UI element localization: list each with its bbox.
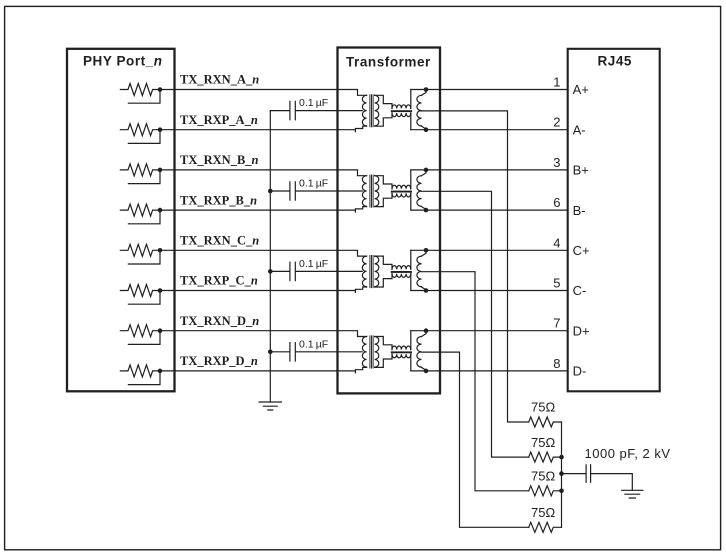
wire TX_RXP_B_n line [160,209,355,211]
node dot pin 3 [424,168,429,173]
wire TX_RXP_A_n line [160,129,355,131]
svg-text:8: 8 [553,356,560,371]
transformer T1 secondary bottom lead [375,113,392,126]
transformer T4 cable-side winding [417,337,422,368]
wire choke to pin line (top) [410,90,412,109]
node junction dot R1/line [158,87,163,92]
wire TX_RXN_B_n line [160,170,367,176]
node dot pin 8 [424,369,429,374]
resistor R5 75 ohm [529,417,562,427]
transformer T1 cable-side bottom lead [422,126,427,130]
svg-text:0.1 µF: 0.1 µF [299,258,328,270]
transformer T3 cable-side winding [417,256,422,287]
resistor R8 75 ohm [529,522,562,532]
transformer T2 secondary winding [375,176,379,207]
choke L2 top winding [392,185,411,189]
resistor R3 (PHY internal termination) [120,164,160,176]
choke L2 bottom winding [392,193,411,197]
node dot pin 7 [424,328,429,333]
transformer T1 cable-side top lead [422,90,427,96]
transformer T3 cable-side bottom lead [422,287,427,291]
transformer T2 primary winding [362,176,366,207]
svg-text:7: 7 [553,316,560,331]
svg-text:TX_RXN_A_n: TX_RXN_A_n [180,73,259,87]
svg-text:75Ω: 75Ω [531,435,555,450]
svg-text:1: 1 [553,75,560,90]
choke L3 bottom winding [392,274,411,278]
svg-text:3: 3 [553,155,560,170]
svg-text:A-: A- [573,122,586,137]
choke L1 core bar [391,110,412,112]
transformer T3 secondary top lead [375,256,392,269]
transformer T4 core [370,336,373,368]
transformer T1 cable-side winding [417,95,422,126]
node dot pin 2 [424,127,429,132]
resistor R7 75 ohm [529,486,562,496]
transformer module T1 box [338,48,441,394]
wire pin 3 line [411,169,568,171]
transformer T2 cable-side top lead [422,170,427,176]
node rail junction (cap C4) [268,350,273,355]
svg-text:B-: B- [573,203,586,218]
wire common termination node [561,422,563,527]
transformer T2 secondary bottom lead [375,193,392,206]
wire choke to pin line (top) [410,331,412,350]
svg-text:C+: C+ [573,243,590,258]
svg-text:6: 6 [553,195,560,210]
svg-text:TX_RXP_C_n: TX_RXP_C_n [180,274,258,288]
svg-text:PHY Port_n: PHY Port_n [83,54,163,69]
transformer T2 secondary top lead [375,176,392,189]
svg-text:0.1 µF: 0.1 µF [299,178,328,190]
capacitor C3 0.1uF (primary center tap) [270,262,362,280]
svg-text:0.1 µF: 0.1 µF [299,97,328,109]
transformer T3 primary bottom lead [355,287,366,292]
transformer T1 secondary top lead [375,95,392,108]
wire TX_RXP_D_n line [160,370,355,372]
node rail junction (cap C2) [268,189,273,194]
capacitor C4 0.1uF (primary center tap) [270,343,362,361]
transformer T3 primary winding [362,256,366,287]
transformer T4 cable-side bottom lead [422,367,427,371]
choke L2 core bar [391,191,412,193]
node junction dot common termination [559,471,564,476]
transformer T1 primary winding [362,95,366,126]
svg-text:A+: A+ [573,82,589,97]
transformer T3 core [370,256,373,288]
resistor R8 (PHY internal termination) [120,365,160,377]
resistor R6 75 ohm [529,452,562,462]
wire pin 8 line [411,370,568,372]
choke L3 top winding [392,266,411,270]
svg-text:75Ω: 75Ω [531,505,555,520]
transformer T4 secondary bottom lead [375,354,392,367]
wire choke to pin line (bottom) [410,354,412,371]
transformer T1 secondary winding [375,95,379,126]
node junction dot R4/line [158,208,163,213]
node dot pin 4 [424,248,429,253]
node junction dot R7/line [158,328,163,333]
wire pin 1 line [411,89,568,91]
svg-text:2: 2 [553,115,560,130]
capacitor C2 0.1uF (primary center tap) [270,182,362,200]
svg-text:D+: D+ [573,323,590,338]
choke L1 bottom winding [392,113,411,117]
wire pin 4 line [411,249,568,251]
transformer T4 primary winding [362,337,366,368]
choke L4 top winding [392,346,411,350]
transformer T2 cable-side bottom lead [422,207,427,211]
transformer T4 secondary winding [375,337,379,368]
choke L4 core bar [391,351,412,353]
node junction dot R3/line [158,168,163,173]
svg-text:TX_RXP_A_n: TX_RXP_A_n [180,113,258,127]
node junction dot R5/line [158,248,163,253]
wire TX_RXP_C_n line [160,290,355,292]
wire TX_RXN_D_n line [160,331,367,337]
svg-text:75Ω: 75Ω [531,469,555,484]
wire choke to pin line (bottom) [410,193,412,210]
node dot pin 5 [424,288,429,293]
transformer T3 secondary winding [375,256,379,287]
svg-text:4: 4 [553,235,560,250]
node junction dot R6/line [158,288,163,293]
wire pin 2 line [411,129,568,131]
choke L4 bottom winding [392,354,411,358]
svg-text:Transformer: Transformer [346,55,431,70]
resistor R6 (PHY internal termination) [120,285,160,297]
ground GND2 (chassis) [622,490,643,498]
svg-text:0.1 µF: 0.1 µF [299,338,328,350]
wire cable-side center tap C [422,272,529,491]
wire choke to pin line (top) [410,250,412,269]
node junction dot R8/line [158,369,163,374]
ground GND1 (center-tap rail) [259,402,281,410]
svg-text:TX_RXN_D_n: TX_RXN_D_n [180,314,259,328]
capacitor C5 1000pF 2kV [562,465,633,490]
wire TX_RXN_C_n line [160,250,367,256]
wire pin 6 line [411,209,568,211]
transformer T4 secondary top lead [375,337,392,350]
transformer T2 core [370,175,373,207]
node dot pin 1 [424,87,429,92]
resistor R5 (PHY internal termination) [120,244,160,256]
resistor R2 (PHY internal termination) [120,124,160,136]
wire pin 5 line [411,290,568,292]
svg-text:5: 5 [553,276,560,291]
wire cable-side center tap D [422,352,529,527]
wire center-tap ground rail [269,111,271,402]
wire cable-side center tap A [422,111,529,422]
svg-text:1000 pF, 2 kV: 1000 pF, 2 kV [585,446,671,461]
transformer T3 secondary bottom lead [375,274,392,287]
svg-text:B+: B+ [573,163,589,178]
transformer T4 primary bottom lead [355,367,366,372]
wire cable-side center tap B [422,191,529,457]
node rail junction (cap C3) [268,269,273,274]
wire choke to pin line (bottom) [410,113,412,130]
svg-text:75Ω: 75Ω [531,400,555,415]
choke L3 core bar [391,271,412,273]
svg-text:RJ45: RJ45 [598,54,632,69]
node junction dot common termination [559,489,564,494]
svg-text:TX_RXP_B_n: TX_RXP_B_n [180,193,257,207]
svg-text:TX_RXN_C_n: TX_RXN_C_n [180,234,259,248]
svg-text:TX_RXP_D_n: TX_RXP_D_n [180,354,258,368]
transformer T3 cable-side top lead [422,250,427,256]
IC U1 PHY Port_n box [67,49,175,392]
wire choke to pin line (bottom) [410,274,412,291]
transformer T4 cable-side top lead [422,331,427,337]
svg-text:D-: D- [573,364,587,379]
node junction dot common termination [559,455,564,460]
wire choke to pin line (top) [410,170,412,189]
choke L1 top winding [392,105,411,109]
resistor R4 (PHY internal termination) [120,204,160,216]
transformer T2 cable-side winding [417,176,422,207]
connector J1 RJ45 box [568,49,660,392]
transformer T1 primary bottom lead [355,126,366,131]
transformer T1 core [370,95,373,127]
svg-text:C-: C- [573,283,587,298]
resistor R1 (PHY internal termination) [120,84,160,96]
svg-text:TX_RXN_B_n: TX_RXN_B_n [180,153,259,167]
resistor R7 (PHY internal termination) [120,325,160,337]
wire TX_RXN_A_n line [160,90,367,96]
node dot pin 6 [424,208,429,213]
node junction dot R2/line [158,127,163,132]
wire pin 7 line [411,330,568,332]
transformer T2 primary bottom lead [355,207,366,212]
capacitor C1 0.1uF (primary center tap) [270,101,362,119]
